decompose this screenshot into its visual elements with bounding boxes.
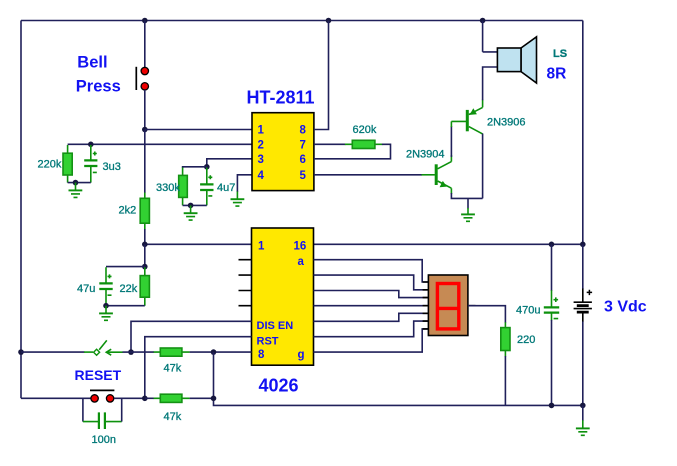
node RST junction xyxy=(142,396,148,402)
node left rail / reset switch xyxy=(18,349,24,355)
svg-text:HT-2811: HT-2811 xyxy=(247,88,315,108)
node 47k junction upper xyxy=(211,349,217,355)
resistor R1 220k xyxy=(63,145,72,183)
svg-text:3: 3 xyxy=(258,154,264,166)
resistor R2 330k xyxy=(179,168,188,206)
ground 220k/3u3 xyxy=(69,183,83,198)
wire HT-2811 pin3 branch xyxy=(207,159,252,167)
node 3u3 top junction xyxy=(88,142,94,148)
wire HT-2811 pin5 to Q1 base xyxy=(314,174,422,176)
wire vdd rail left segment xyxy=(145,243,252,245)
svg-text:5: 5 xyxy=(300,170,307,182)
resistor R5 22k xyxy=(140,267,149,305)
wire display common to 220 xyxy=(468,306,506,323)
svg-text:RST: RST xyxy=(257,336,279,348)
node ground tap 220k/3u3 xyxy=(73,180,79,186)
svg-text:Press: Press xyxy=(76,78,121,96)
node 22k 47u top junction xyxy=(142,264,148,270)
wire reset button to RST node xyxy=(114,397,145,399)
svg-text:7: 7 xyxy=(300,140,306,152)
speaker LS xyxy=(497,37,536,83)
wire 330k 4u7 bottom node xyxy=(183,204,207,206)
svg-text:4: 4 xyxy=(258,170,265,182)
node vdd / 2k2 junction xyxy=(142,242,148,248)
wire 4026 pin f to display xyxy=(314,321,429,337)
wire bell press lower lead xyxy=(144,90,146,130)
svg-text:1: 1 xyxy=(258,241,265,253)
transistor Q1 2N3904 xyxy=(422,155,452,194)
svg-text:330k: 330k xyxy=(156,182,180,194)
capacitor C4 100n xyxy=(83,398,122,429)
ground 330k/4u7 xyxy=(184,205,198,220)
node vdd / battery junction xyxy=(580,242,586,248)
svg-text:8: 8 xyxy=(258,349,265,361)
ground battery negative xyxy=(576,405,590,435)
resistor R4 620k xyxy=(345,140,383,148)
wire 4026 pin c to display xyxy=(314,291,429,298)
wire junction vertical xyxy=(213,352,215,398)
wire speaker return to Q2 emitter xyxy=(483,67,498,100)
svg-text:220k: 220k xyxy=(38,159,62,171)
wire 4026 RST branch xyxy=(145,337,252,399)
svg-text:DIS EN: DIS EN xyxy=(257,320,294,332)
op-amp U1 HT-2811 body xyxy=(252,113,314,191)
capacitor C5 470u xyxy=(544,244,559,405)
wire 22k node to 47u xyxy=(106,266,145,268)
node top rail / speaker junction xyxy=(480,18,486,24)
node 4u7 top junction xyxy=(204,164,210,170)
wire 4026 pin b to display xyxy=(314,275,429,290)
svg-text:4u7: 4u7 xyxy=(217,182,235,194)
capacitor C2 4u7 xyxy=(200,168,213,206)
wire bell press upper lead xyxy=(144,21,146,68)
svg-text:2N3904: 2N3904 xyxy=(406,149,445,161)
pin labels U2 xyxy=(257,241,307,361)
capacitor C3 47u xyxy=(99,267,112,305)
wire left border rail xyxy=(20,21,22,399)
svg-text:47k: 47k xyxy=(164,363,182,375)
wire HT-2811 pin7 lead xyxy=(314,143,346,145)
svg-text:2N3906: 2N3906 xyxy=(487,117,526,129)
svg-text:Bell: Bell xyxy=(77,54,107,72)
ground pin4 xyxy=(231,192,245,207)
wire 4026 pin e to display xyxy=(314,313,429,321)
node vdd / 470u junction xyxy=(549,242,555,248)
wire reset switch left lead xyxy=(21,351,85,353)
svg-text:1: 1 xyxy=(258,125,265,137)
svg-text:3u3: 3u3 xyxy=(103,161,121,173)
wire switch node to 47k xyxy=(131,351,154,353)
node switch junction xyxy=(128,349,134,355)
wire right border rail xyxy=(582,21,584,245)
wire reset switch right lead xyxy=(123,351,132,353)
svg-text:RESET: RESET xyxy=(75,367,122,383)
node ground tap 47u/22k xyxy=(103,303,109,309)
wire vdd rail right segment pin16 to battery xyxy=(314,243,583,245)
capacitor C1 3u3 xyxy=(84,145,97,183)
resistor R6 47k xyxy=(154,348,190,356)
node pin1 junction A xyxy=(142,127,148,133)
wire 2k2 to vdd rail xyxy=(144,229,146,244)
svg-text:3 Vdc: 3 Vdc xyxy=(604,299,647,316)
IC U2 4026 body xyxy=(252,228,314,365)
resistor R7 47k xyxy=(154,394,190,402)
node top rail / pin8 junction xyxy=(326,18,332,24)
svg-text:100n: 100n xyxy=(92,434,116,446)
svg-text:g: g xyxy=(298,349,305,361)
wire RST node to 47k lower xyxy=(145,397,154,399)
svg-text:22k: 22k xyxy=(120,283,138,295)
svg-text:620k: 620k xyxy=(353,124,377,136)
resistor R8 220 xyxy=(501,322,510,356)
node bottom rail / battery ground xyxy=(580,403,586,409)
wire 4026 pin d to display xyxy=(314,305,429,307)
wire left rail to reset button xyxy=(21,397,91,399)
ground Q1 emitter xyxy=(461,198,475,221)
wire 2k2 node down to 22k xyxy=(144,244,146,266)
wire pin3 node to 330k xyxy=(183,167,207,168)
svg-text:220: 220 xyxy=(517,334,535,346)
svg-text:a: a xyxy=(298,256,305,268)
node bottom rail / 470u xyxy=(549,403,555,409)
wire 4026 DIS EN to switch xyxy=(131,321,252,352)
node top rail / bell press junction xyxy=(142,18,148,24)
wire Q1 collector to Q2 base xyxy=(450,126,452,157)
wire Q1 emitter to ground row xyxy=(451,193,482,198)
svg-text:47u: 47u xyxy=(77,283,95,295)
node ground tap 330k/4u7 xyxy=(188,203,194,209)
svg-text:2: 2 xyxy=(258,140,264,152)
push switch SW3 reset buttons xyxy=(90,390,114,402)
wire 4026 pin a to display xyxy=(314,260,429,282)
wire 220k 3u3 bottom node xyxy=(68,182,91,184)
svg-text:4026: 4026 xyxy=(259,376,299,396)
svg-text:6: 6 xyxy=(300,154,306,166)
wire 47u 22k bottom node xyxy=(106,305,145,307)
wire speaker feed from top rail xyxy=(483,21,498,52)
resistor R3 2k2 xyxy=(140,193,149,230)
transistor Q2 2N3906 xyxy=(451,100,482,134)
wire bottom rail xyxy=(214,398,583,406)
battery B1 3V xyxy=(574,244,593,405)
wire Q2 collector down xyxy=(482,134,484,199)
pin labels U1 left xyxy=(258,125,265,182)
svg-text:470u: 470u xyxy=(516,305,540,317)
7-segment display DS1 xyxy=(428,275,468,336)
pin stubs U2 left unconnected xyxy=(239,260,252,306)
svg-text:8R: 8R xyxy=(547,66,567,83)
wire 47k to 4026 pin8 xyxy=(190,351,252,353)
svg-text:16: 16 xyxy=(294,241,307,253)
svg-text:8: 8 xyxy=(300,125,307,137)
svg-text:2k2: 2k2 xyxy=(119,205,137,217)
wire HT-2811 pin4 branch xyxy=(237,175,252,192)
wire HT-2811 pin2 row xyxy=(68,143,252,145)
wire HT-2811 pin1 xyxy=(145,129,252,131)
pin labels U1 right xyxy=(300,125,307,182)
wire HT-2811 pin8 to top rail xyxy=(314,21,329,130)
ground 47u/22k xyxy=(99,306,113,321)
push switch SW1 Bell Press xyxy=(136,67,148,90)
wire 4026 pin g to display xyxy=(314,329,429,352)
svg-text:47k: 47k xyxy=(164,411,182,423)
wire 47k lower to bottom rail xyxy=(190,397,214,399)
svg-text:LS: LS xyxy=(553,48,567,60)
display pin stubs xyxy=(423,282,476,329)
wire top supply rail xyxy=(21,20,583,22)
wire 220 to bottom rail xyxy=(504,356,506,405)
node 47k junction lower xyxy=(211,396,217,402)
toggle switch SW2 reset xyxy=(84,340,123,355)
wire 620k to pin6 loop xyxy=(314,144,391,159)
wire bell node down to 2k2 xyxy=(144,130,146,194)
